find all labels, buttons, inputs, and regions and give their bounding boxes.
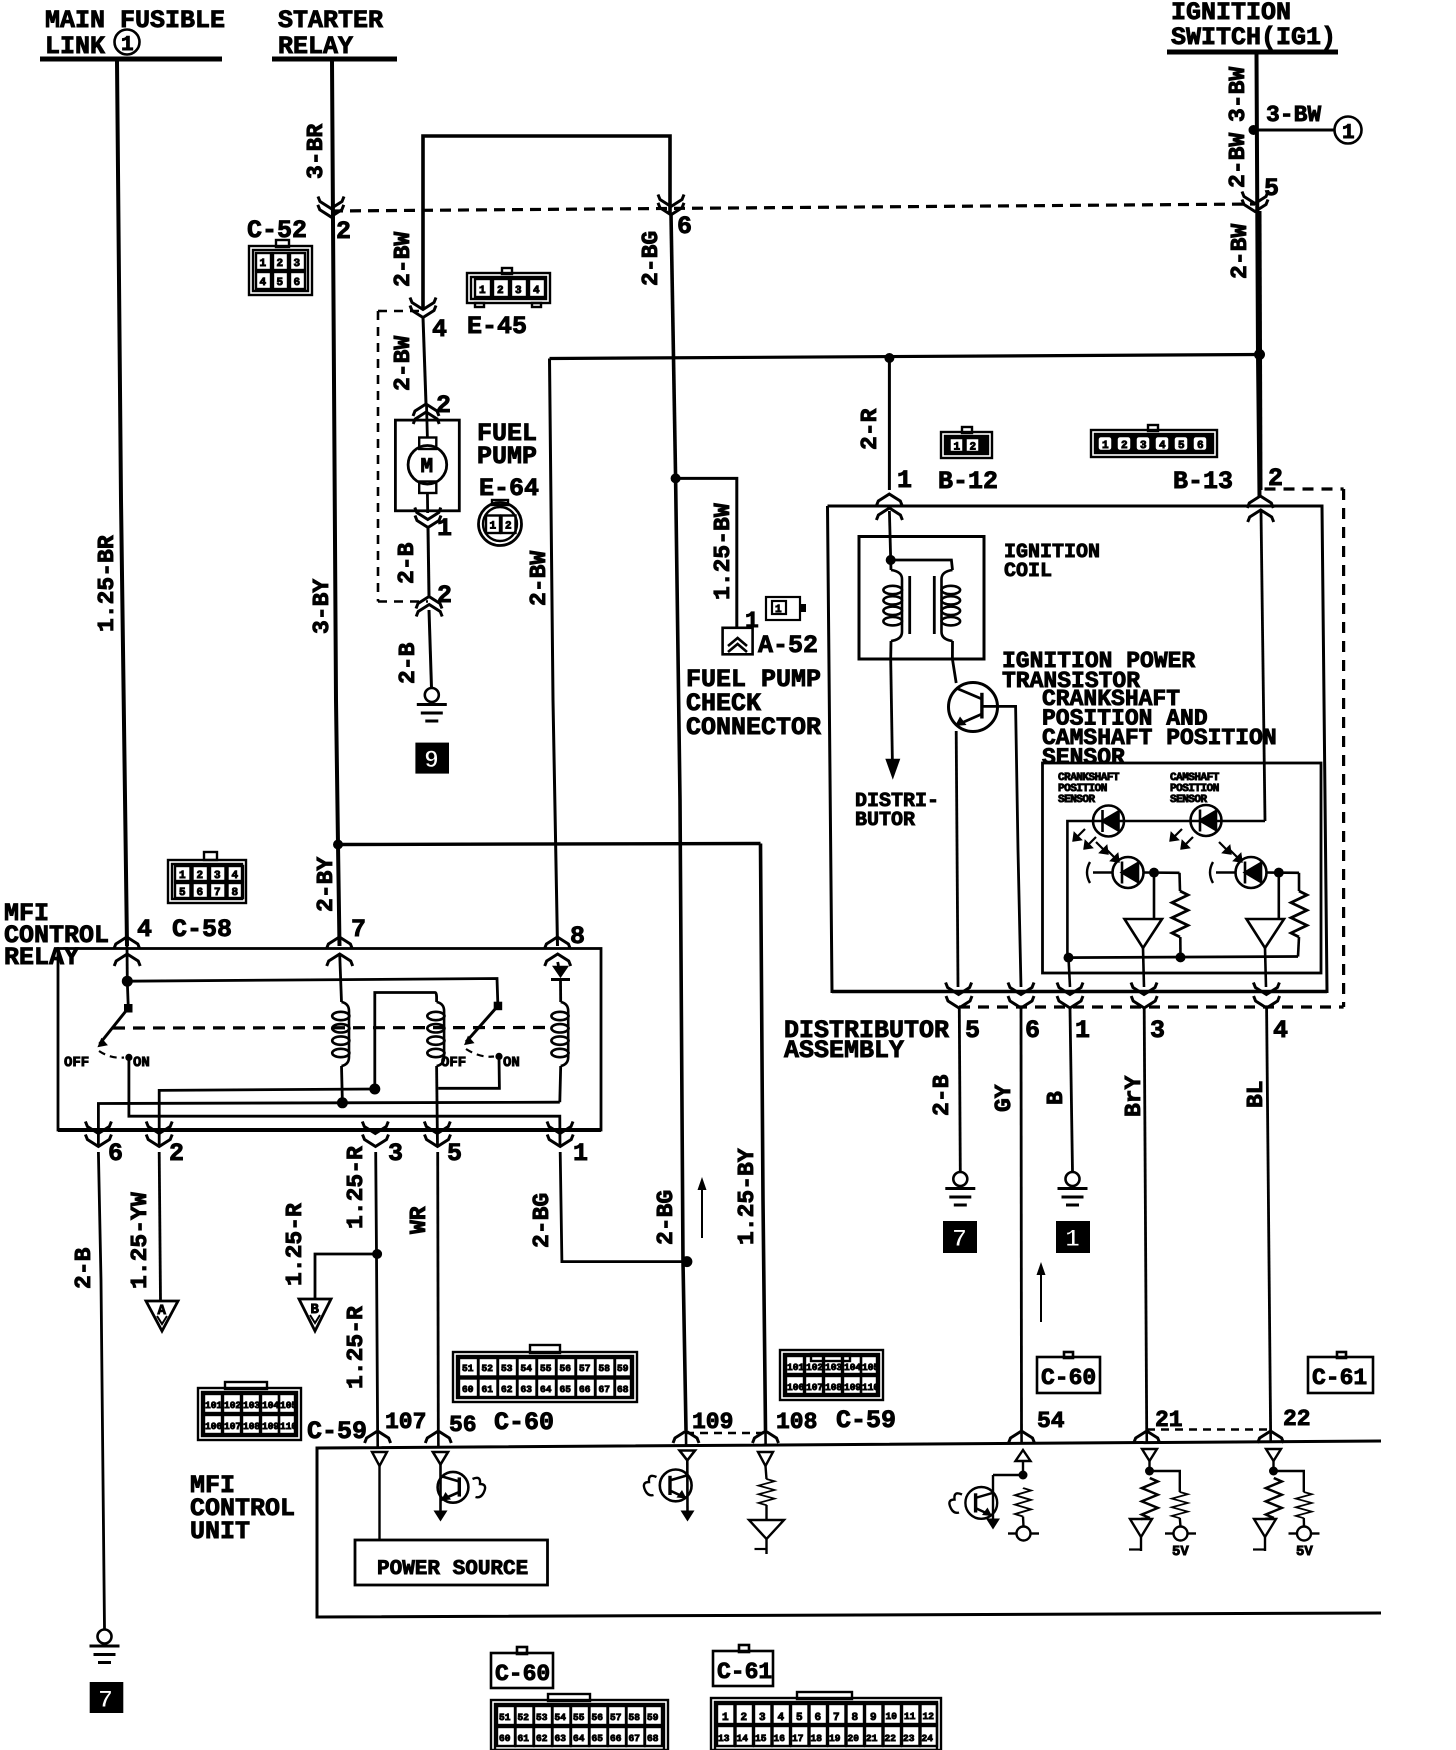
connector B-12 — [938, 427, 998, 496]
svg-text:52: 52 — [482, 1363, 494, 1374]
pin: E-64 pin 2 chevron (up) — [416, 581, 452, 617]
svg-text:M: M — [421, 456, 434, 479]
svg-text:109: 109 — [692, 1409, 733, 1435]
svg-text:1: 1 — [897, 466, 912, 495]
svg-text:10: 10 — [886, 1711, 898, 1722]
wire: rail down to pin 1 — [1069, 958, 1071, 987]
svg-text:BrY: BrY — [1121, 1075, 1147, 1117]
svg-text:5: 5 — [1264, 174, 1279, 203]
coil: core lines — [910, 576, 935, 634]
svg-text:65: 65 — [592, 1733, 604, 1744]
svg-text:7: 7 — [952, 1225, 967, 1254]
svg-text:7: 7 — [833, 1712, 840, 1724]
boundary: distributor dashed box — [959, 489, 1344, 1007]
svg-text:1: 1 — [1102, 440, 1109, 452]
wire: 1.25-R from relay pin 3 to pin 107 — [343, 1146, 378, 1430]
wire: 2-BG long vertical — [638, 214, 686, 1430]
svg-text:51: 51 — [499, 1712, 511, 1723]
wire: line A pin2 to coil2 top via pin3 — [159, 1089, 375, 1147]
svg-text:102: 102 — [224, 1400, 241, 1411]
photodiode: camshaft — [1210, 857, 1299, 888]
svg-text:3-BR: 3-BR — [303, 124, 329, 179]
svg-text:61: 61 — [482, 1384, 494, 1395]
component: POWER SOURCE box — [355, 1540, 548, 1585]
junction: crank photodiode / amp — [1149, 868, 1159, 878]
svg-text:59: 59 — [647, 1712, 659, 1723]
node: MAIN FUSIBLE LINK 1 header — [40, 6, 225, 61]
junction: rail to pin 1 — [1064, 953, 1074, 963]
svg-text:3-BW: 3-BW — [1266, 102, 1321, 128]
svg-text:3-BY: 3-BY — [309, 579, 335, 634]
svg-text:2-BY: 2-BY — [313, 857, 339, 912]
pin: MFI pin 56 — [425, 1412, 476, 1443]
svg-text:3: 3 — [1150, 1016, 1165, 1045]
svg-text:103: 103 — [825, 1362, 842, 1373]
svg-text:20: 20 — [848, 1733, 860, 1744]
svg-text:A-52: A-52 — [758, 631, 818, 660]
svg-text:2-BW: 2-BW — [526, 551, 552, 606]
svg-text:16: 16 — [774, 1733, 786, 1744]
junction: line A / pin 3 — [369, 1084, 380, 1095]
svg-text:2: 2 — [336, 217, 351, 246]
svg-text:PUMP: PUMP — [477, 442, 537, 471]
svg-text:ON: ON — [133, 1055, 150, 1071]
svg-text:9: 9 — [424, 746, 439, 775]
connector C-52 — [247, 216, 312, 295]
svg-text:C-60: C-60 — [1041, 1365, 1096, 1391]
svg-text:SWITCH(IG1): SWITCH(IG1) — [1171, 23, 1336, 52]
svg-text:5V: 5V — [1296, 1544, 1313, 1560]
pin: MFI pin 54 — [1009, 1408, 1065, 1443]
svg-text:SENSOR: SENSOR — [1170, 794, 1208, 806]
label: DISTRIBUTOR ASSEMBLY — [784, 1016, 949, 1065]
LED: camshaft sensor LED — [1191, 805, 1222, 836]
svg-text:24: 24 — [922, 1733, 934, 1744]
svg-text:C-59: C-59 — [836, 1406, 896, 1435]
wire: switch2 ON to pin 5 line — [438, 1056, 499, 1088]
wire: 2-R to distributor — [857, 358, 889, 490]
svg-text:13: 13 — [718, 1733, 730, 1744]
svg-text:67: 67 — [629, 1733, 641, 1744]
svg-text:4: 4 — [533, 285, 540, 297]
svg-text:CONNECTOR: CONNECTOR — [686, 713, 821, 742]
svg-text:67: 67 — [599, 1384, 611, 1395]
svg-text:107: 107 — [806, 1382, 823, 1393]
svg-text:4: 4 — [778, 1712, 785, 1724]
connector B-13 — [1091, 425, 1233, 496]
svg-text:2-B: 2-B — [394, 542, 420, 584]
label: CRANKSHAFT POSITION SENSOR (small) — [1058, 772, 1120, 806]
svg-text:2-BG: 2-BG — [653, 1190, 679, 1245]
pin: distributor pin 6 — [1008, 983, 1040, 1046]
label: MFI CONTROL RELAY — [4, 899, 109, 972]
junction: H3 to 2-R — [884, 353, 894, 363]
node: ground ref 1 (black box) — [1056, 1221, 1090, 1254]
label: FUEL PUMP E-64 — [477, 419, 539, 503]
box: MFI control relay — [58, 949, 601, 1131]
svg-text:64: 64 — [573, 1733, 585, 1744]
svg-text:C-60: C-60 — [494, 1408, 554, 1437]
svg-text:21: 21 — [866, 1733, 878, 1744]
svg-text:57: 57 — [579, 1363, 591, 1374]
svg-text:2: 2 — [497, 285, 504, 297]
wire: ignition switch vertical 3-BW / 2-BW — [1225, 54, 1260, 496]
pin: relay pin 6 — [85, 1122, 123, 1169]
annotation: up arrow beside GY — [1037, 1262, 1046, 1322]
svg-text:A: A — [158, 1303, 167, 1319]
svg-text:7: 7 — [214, 887, 221, 899]
svg-text:108: 108 — [776, 1409, 817, 1435]
pin 56 internal: input triangle + transistor — [433, 1452, 485, 1522]
label: IGNITION POWER TRANSISTOR — [1002, 648, 1195, 694]
svg-text:1: 1 — [573, 1139, 588, 1168]
svg-text:GY: GY — [991, 1084, 1017, 1112]
terminal: triangle B — [299, 1299, 331, 1331]
svg-text:C-58: C-58 — [172, 915, 232, 944]
svg-text:1: 1 — [179, 870, 186, 882]
svg-text:SENSOR: SENSOR — [1042, 745, 1125, 771]
svg-text:6: 6 — [197, 887, 204, 899]
svg-text:POWER SOURCE: POWER SOURCE — [377, 1558, 528, 1581]
LED: crankshaft sensor LED — [1093, 806, 1124, 837]
svg-text:17: 17 — [792, 1733, 804, 1744]
svg-text:102: 102 — [806, 1362, 823, 1373]
pin: MFI pin 21 — [1134, 1407, 1183, 1443]
wire: top horizontal link — [423, 136, 670, 310]
wire: pin 4 into relay — [126, 946, 129, 981]
svg-text:2-BG: 2-BG — [638, 231, 664, 286]
pin 21 internal: triangle + resistor to ground + pullup to 5V — [1129, 1449, 1196, 1560]
svg-text:51: 51 — [462, 1363, 474, 1374]
svg-text:4: 4 — [137, 915, 152, 944]
wire: 2-BW inside distributor to sensors — [1261, 511, 1265, 821]
svg-text:3: 3 — [214, 870, 221, 882]
wire: pin4 to switch2 pivot — [127, 979, 498, 1006]
svg-text:3: 3 — [388, 1139, 403, 1168]
connector label C-61 (bottom) — [713, 1645, 773, 1686]
wire: branch 3-BW to terminal 1 — [1249, 102, 1335, 135]
box: distributor assembly solid box — [828, 506, 1328, 992]
svg-text:2-BW: 2-BW — [1225, 133, 1251, 188]
pin: ignition switch chevron 5 — [1242, 174, 1279, 212]
connector label C-60 (bottom) — [491, 1647, 553, 1688]
connector A-52 (fuel pump check) — [723, 628, 818, 660]
connector C-59 (pins 101-110) — [198, 1382, 301, 1440]
pin 22 internal: triangle + resistor to ground + pullup to 5V — [1253, 1449, 1320, 1560]
svg-text:8: 8 — [570, 922, 585, 951]
svg-text:6: 6 — [108, 1139, 123, 1168]
svg-text:12: 12 — [923, 1711, 935, 1722]
svg-text:2-BW: 2-BW — [1227, 224, 1253, 279]
svg-text:1: 1 — [775, 604, 782, 616]
pin: relay pin 3 — [362, 1122, 403, 1169]
label: DISTRIBUTOR (arrow target) — [855, 790, 939, 832]
junction: 1.25-R / branch B — [372, 1249, 382, 1259]
wire: 2-BW into fuel pump — [390, 317, 426, 404]
ground: distributor pin 1 ground — [1058, 1172, 1088, 1205]
svg-text:2: 2 — [970, 442, 977, 454]
svg-text:5: 5 — [1178, 440, 1185, 452]
svg-text:56: 56 — [449, 1412, 477, 1438]
svg-text:8: 8 — [232, 887, 239, 899]
coil: secondary winding — [891, 560, 960, 683]
svg-text:4: 4 — [232, 870, 239, 882]
wire stubs at MFI pins — [378, 1431, 1271, 1448]
fuel pump motor E-64 — [395, 404, 459, 513]
wire: 2-BG from relay pin 1 to 109 line — [529, 1152, 687, 1262]
pin: MFI pin 22 — [1258, 1406, 1311, 1443]
svg-text:1: 1 — [1075, 1016, 1090, 1045]
svg-text:1: 1 — [437, 514, 452, 543]
svg-text:2-B: 2-B — [929, 1074, 955, 1116]
resistor: crank sensor pull — [1172, 873, 1188, 958]
svg-text:62: 62 — [536, 1733, 548, 1744]
svg-text:64: 64 — [540, 1384, 552, 1395]
light arrows from crank LED — [1074, 829, 1086, 841]
wire: 1.25-BY down to pin 108 — [734, 844, 766, 1431]
light arrows into crank photodiode — [1096, 842, 1108, 854]
junction: H3 to ignition vertical — [1254, 349, 1265, 360]
svg-text:15: 15 — [755, 1733, 767, 1744]
pin: E-45 pin 4 chevron — [410, 298, 447, 345]
node: IGNITION SWITCH (IG1) header — [1167, 0, 1338, 52]
pin: MFI pin 108 — [753, 1409, 818, 1443]
wire: BrY from pin 3 to pin 21 — [1121, 1009, 1147, 1430]
svg-text:5: 5 — [796, 1712, 803, 1724]
svg-text:110: 110 — [280, 1421, 297, 1432]
svg-text:C-59: C-59 — [307, 1417, 367, 1446]
pin: relay pin 5 — [424, 1122, 462, 1169]
resistor: cam sensor pull — [1291, 873, 1307, 957]
svg-text:1: 1 — [490, 521, 497, 533]
svg-text:58: 58 — [599, 1363, 611, 1374]
svg-text:6: 6 — [1025, 1016, 1040, 1045]
svg-text:BL: BL — [1243, 1080, 1269, 1108]
photodiode: crankshaft — [1087, 857, 1180, 888]
svg-text:7: 7 — [98, 1686, 113, 1715]
connector E-64 (round) — [479, 500, 522, 546]
svg-text:2-BW: 2-BW — [390, 232, 416, 287]
svg-text:101: 101 — [787, 1362, 804, 1373]
svg-text:1: 1 — [1065, 1225, 1080, 1254]
wire: 2-R into coil — [889, 511, 890, 560]
pin: C-52 pin 2 chevron — [318, 197, 351, 247]
svg-text:53: 53 — [536, 1712, 548, 1723]
svg-text:6: 6 — [1197, 440, 1204, 452]
svg-text:3: 3 — [515, 285, 522, 297]
svg-text:3-BW: 3-BW — [1225, 67, 1251, 122]
wire: WR from relay pin 5 to pin 56 — [406, 1152, 438, 1430]
wire: 2-BW continuation below chevron 5 — [1227, 211, 1261, 490]
svg-text:6: 6 — [294, 277, 301, 289]
svg-text:STARTER: STARTER — [278, 6, 383, 35]
pin: relay pin 7 — [326, 915, 366, 966]
junction: coil bottom to line B — [337, 1097, 348, 1108]
svg-text:109: 109 — [844, 1382, 861, 1393]
pin: distributor pin 2 chevrons — [1247, 464, 1283, 522]
svg-text:66: 66 — [610, 1733, 622, 1744]
connector C-58 — [168, 852, 246, 944]
svg-text:B-12: B-12 — [938, 467, 998, 496]
svg-text:2: 2 — [169, 1139, 184, 1168]
svg-text:1: 1 — [479, 285, 486, 297]
svg-text:1.25-R: 1.25-R — [343, 1146, 369, 1229]
svg-text:23: 23 — [903, 1733, 915, 1744]
wire: starter relay vertical 3-BR / 3-BY / 2-BY — [303, 61, 340, 946]
svg-text:105: 105 — [280, 1400, 297, 1411]
connector C-61 (bottom, pins 1-24) — [711, 1692, 941, 1750]
connector E-45 — [467, 268, 550, 341]
pin: distributor pin 4 — [1253, 983, 1288, 1046]
wire: 2-BW horizontal from ignition — [550, 355, 1260, 359]
pin: MFI pin 109 — [673, 1409, 733, 1443]
connector C-60 (pins 51-68) — [453, 1345, 637, 1402]
svg-text:3: 3 — [1140, 440, 1147, 452]
junction: starter line / H4 — [333, 840, 343, 850]
wire: 1.25-R branch to B — [282, 1203, 377, 1299]
svg-text:OFF: OFF — [64, 1055, 89, 1071]
svg-text:68: 68 — [647, 1733, 659, 1744]
pin 108 internal: triangle + resistor + signal ground — [749, 1452, 784, 1554]
label: FUEL PUMP CHECK CONNECTOR — [686, 665, 821, 742]
terminal: triangle A — [146, 1301, 178, 1331]
svg-text:5: 5 — [179, 887, 186, 899]
svg-text:108: 108 — [243, 1421, 260, 1432]
node: STARTER RELAY header — [272, 6, 397, 61]
pin: fuel pump pin 2 chevron (up) — [413, 391, 451, 424]
svg-text:107: 107 — [224, 1421, 241, 1432]
svg-text:52: 52 — [518, 1712, 530, 1723]
svg-text:ASSEMBLY: ASSEMBLY — [784, 1036, 904, 1065]
boundary: fuel pump dashed box — [378, 311, 428, 602]
svg-text:103: 103 — [243, 1400, 260, 1411]
dashed: relay actuation link — [113, 1026, 551, 1030]
svg-text:B: B — [311, 1302, 320, 1318]
svg-text:5: 5 — [447, 1139, 462, 1168]
pin: distributor pin 1 — [1057, 983, 1090, 1046]
svg-text:56: 56 — [560, 1363, 572, 1374]
svg-text:101: 101 — [205, 1400, 222, 1411]
svg-text:54: 54 — [1037, 1408, 1065, 1434]
svg-text:4: 4 — [1273, 1016, 1288, 1045]
connector label C-61 (mid) — [1308, 1352, 1373, 1393]
wire: 1.25-BW branch to fuel pump check connector — [676, 478, 759, 634]
svg-text:104: 104 — [262, 1400, 279, 1411]
pin: chevron 6 on 2-BG — [658, 195, 692, 242]
svg-text:1: 1 — [722, 1712, 729, 1724]
amp: cam comparator triangle — [1247, 873, 1285, 987]
svg-text:66: 66 — [579, 1384, 591, 1395]
svg-text:2-B: 2-B — [395, 642, 421, 684]
node: ground ref 7 (black box) — [943, 1221, 977, 1254]
ground: distributor pin 5 ground — [945, 1172, 975, 1205]
svg-text:55: 55 — [573, 1712, 585, 1723]
svg-text:60: 60 — [499, 1733, 511, 1744]
junction: crank resistor to rail — [1176, 952, 1186, 962]
switch: relay switch 1 — [64, 981, 150, 1071]
svg-text:WR: WR — [406, 1206, 432, 1234]
ground: relay pin 6 ground — [90, 1630, 120, 1663]
svg-text:C-61: C-61 — [717, 1659, 772, 1685]
svg-text:53: 53 — [501, 1363, 513, 1374]
wire: main fusible link vertical 1.25-BR — [94, 61, 127, 946]
svg-text:2: 2 — [436, 391, 451, 420]
svg-text:107: 107 — [385, 1409, 426, 1435]
node: ground ref 7 (black box, bottom left) — [90, 1682, 124, 1715]
svg-text:2: 2 — [277, 258, 284, 270]
wire: primary to distributor arrow — [885, 659, 900, 780]
svg-text:11: 11 — [904, 1711, 916, 1722]
svg-text:108: 108 — [825, 1382, 842, 1393]
coil: primary winding — [883, 560, 902, 659]
svg-text:2: 2 — [197, 870, 204, 882]
coil: relay coil (middle, from pin 7) — [332, 954, 349, 1103]
label: IGNITION COIL — [1004, 541, 1100, 583]
wire: sensor ground rail — [1067, 957, 1298, 958]
light arrows into cam photodiode — [1219, 842, 1231, 854]
pin: distributor pin 3 — [1131, 983, 1165, 1046]
svg-text:61: 61 — [518, 1733, 530, 1744]
amp: crank comparator triangle — [1125, 873, 1163, 987]
ground: fuel pump ground — [417, 688, 447, 721]
svg-text:2: 2 — [1121, 440, 1128, 452]
wire: switch1 ON to pin 1 (line C) — [129, 1057, 560, 1147]
pin: distributor pin 1 chevrons — [876, 466, 912, 520]
wire: pin3 junction up to coil2 — [375, 993, 435, 1090]
svg-text:1.25-BW: 1.25-BW — [710, 503, 736, 600]
svg-text:2: 2 — [437, 581, 452, 610]
svg-text:E-64: E-64 — [479, 474, 539, 503]
svg-text:1.25-YW: 1.25-YW — [127, 1192, 153, 1289]
svg-text:3: 3 — [759, 1712, 766, 1724]
junction: coil primary/secondary — [886, 555, 896, 565]
pin 107 internal: input triangle — [372, 1452, 387, 1540]
switch: relay switch 2 — [441, 1002, 520, 1071]
svg-text:57: 57 — [610, 1712, 622, 1723]
wire: 2-B from pin 5 to ground — [929, 1009, 960, 1172]
svg-text:65: 65 — [560, 1384, 572, 1395]
wire: transistor emitter to pin 5 — [956, 731, 958, 987]
svg-text:4: 4 — [432, 315, 447, 344]
junction: 2-BG join — [681, 1256, 692, 1267]
svg-text:1: 1 — [954, 442, 961, 454]
svg-text:5V: 5V — [1172, 1544, 1189, 1560]
svg-text:8: 8 — [852, 1712, 859, 1724]
svg-text:C-60: C-60 — [495, 1661, 550, 1687]
svg-text:62: 62 — [501, 1384, 513, 1395]
svg-text:UNIT: UNIT — [190, 1517, 250, 1546]
junction: cam photodiode / amp — [1274, 868, 1284, 878]
wire: LED feed rail — [1067, 821, 1265, 958]
svg-text:E-45: E-45 — [467, 312, 527, 341]
svg-text:106: 106 — [787, 1382, 804, 1393]
svg-text:ON: ON — [503, 1055, 520, 1071]
svg-text:22: 22 — [1283, 1406, 1311, 1432]
svg-text:6: 6 — [815, 1712, 822, 1724]
wire: 1.25-YW from relay pin 2 to A — [127, 1152, 161, 1301]
svg-text:BUTOR: BUTOR — [855, 809, 915, 832]
ignition coil box — [859, 537, 984, 660]
wire: 2-B from relay pin 6 to ground — [71, 1152, 105, 1630]
svg-text:COIL: COIL — [1004, 560, 1052, 583]
label: CRANKSHAFT POSITION AND CAMSHAFT POSITION SENSOR — [1042, 686, 1277, 771]
svg-text:1: 1 — [121, 34, 134, 57]
svg-text:105: 105 — [862, 1362, 879, 1373]
svg-text:110: 110 — [862, 1382, 879, 1393]
svg-text:55: 55 — [540, 1363, 552, 1374]
wire: 2-B to ground — [395, 610, 432, 688]
wire: line B pin6 to coils — [98, 1102, 559, 1146]
